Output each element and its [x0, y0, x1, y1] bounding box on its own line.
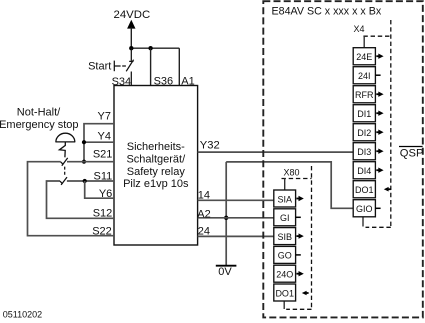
svg-text:24E: 24E — [356, 52, 372, 62]
wire to S36 — [150, 48, 152, 85]
svg-text:14: 14 — [198, 189, 210, 201]
X4 pin RFR — [353, 86, 383, 103]
svg-text:GI: GI — [280, 213, 290, 223]
wire A2 — [198, 217, 274, 219]
junction S36 node — [148, 46, 152, 50]
svg-text:S12: S12 — [93, 208, 113, 220]
svg-text:DI3: DI3 — [357, 147, 371, 157]
emergency stop button head — [55, 133, 75, 157]
wire Y7 — [84, 124, 114, 162]
supply arrow up — [127, 20, 135, 48]
junction S34 node — [129, 46, 133, 50]
connector X4 top lead — [363, 36, 365, 48]
svg-text:Sicherheits-: Sicherheits- — [127, 141, 185, 153]
wire S21 — [67, 161, 114, 163]
svg-text:S11: S11 — [94, 170, 113, 182]
X80 pin DO1 — [274, 284, 309, 301]
wire S11 — [67, 180, 114, 182]
svg-text:SIA: SIA — [277, 194, 292, 204]
svg-text:24O: 24O — [276, 270, 293, 280]
X4 pin DI2 — [353, 124, 383, 141]
connector X4 dashed boundary — [363, 35, 390, 37]
junction S11 — [83, 179, 87, 183]
svg-text:Schaltgerät/: Schaltgerät/ — [126, 153, 186, 165]
svg-text:24: 24 — [198, 225, 210, 237]
svg-text:DO1: DO1 — [355, 185, 374, 195]
wire Y6 jumper — [85, 181, 114, 198]
junction Y4 — [82, 140, 86, 144]
X80 pin SIA — [274, 190, 304, 207]
svg-text:S21: S21 — [93, 148, 113, 160]
e-stop actuator dashed link — [64, 167, 66, 177]
safety relay U1 text — [123, 141, 189, 190]
junction S21 — [82, 160, 86, 164]
connector X80 dashed boundary — [282, 178, 312, 180]
wire S22 loop to e-stop contact 1 — [28, 162, 115, 236]
svg-text:GO: GO — [278, 251, 292, 261]
wire Y32 to DI3 — [198, 151, 354, 153]
connector X4 bottom lead — [362, 217, 364, 227]
svg-text:Emergency stop: Emergency stop — [0, 119, 79, 131]
svg-text:Y6: Y6 — [99, 188, 112, 200]
svg-text:DO1: DO1 — [275, 288, 294, 298]
svg-text:Y32: Y32 — [200, 140, 220, 152]
X80 pin GI — [274, 209, 301, 226]
connector X80 top lead — [284, 178, 286, 190]
X4 pin DI4 — [353, 162, 383, 179]
svg-text:DI2: DI2 — [357, 128, 371, 138]
svg-text:05110202: 05110202 — [3, 310, 42, 320]
ground 0V symbol — [216, 265, 237, 267]
wire Y4 — [84, 141, 114, 143]
svg-text:Start: Start — [88, 61, 111, 73]
X80 pin SIB — [274, 228, 304, 245]
svg-text:24VDC: 24VDC — [114, 9, 151, 21]
svg-text:X4: X4 — [354, 24, 365, 34]
svg-text:GIO: GIO — [356, 204, 373, 214]
wire 14 — [198, 199, 274, 201]
X4 pin DI3 — [353, 143, 383, 160]
svg-text:X80: X80 — [284, 168, 300, 178]
X80 pin 24O — [274, 265, 304, 282]
svg-text:S22: S22 — [92, 225, 112, 237]
svg-text:DI1: DI1 — [357, 109, 371, 119]
e-stop NC contact 1 — [61, 158, 68, 166]
svg-text:Y7: Y7 — [98, 111, 111, 123]
switch S34 start button (NO contact) — [114, 48, 133, 85]
svg-text:SIB: SIB — [277, 232, 292, 242]
X4 pin 24E — [353, 48, 383, 65]
wire S12 loop to e-stop contact 2 — [47, 181, 115, 218]
svg-text:DI4: DI4 — [357, 166, 371, 176]
svg-text:RFR: RFR — [355, 90, 374, 100]
wire GIO net — [226, 162, 353, 208]
connector X80 bottom lead — [283, 301, 285, 309]
safety relay U1 box — [114, 86, 198, 246]
svg-text:QSP: QSP — [400, 147, 424, 159]
e-stop NC contact 2 — [60, 177, 67, 185]
X80 pin GO — [274, 246, 301, 263]
wire to A1 — [178, 48, 180, 85]
svg-text:24I: 24I — [358, 71, 371, 81]
svg-text:A2: A2 — [197, 209, 210, 221]
frequency inverter E84AV dashed enclosure — [263, 1, 423, 317]
wire 24 — [198, 235, 274, 237]
svg-text:E84AV SC x xxx x x Bx: E84AV SC x xxx x x Bx — [272, 5, 382, 17]
svg-text:Pilz e1vp 10s: Pilz e1vp 10s — [123, 178, 189, 190]
X4 pin GIO — [353, 200, 380, 217]
svg-text:0V: 0V — [218, 266, 232, 278]
svg-text:Not-Halt/: Not-Halt/ — [17, 106, 61, 118]
X4 pin DO1 — [353, 181, 391, 198]
X4 pin DI1 — [353, 105, 383, 122]
wire 24V bus horizontal — [131, 47, 179, 49]
X4 pin 24I — [353, 67, 380, 84]
svg-text:Y4: Y4 — [98, 130, 111, 142]
wire 0V net vertical — [225, 162, 227, 265]
junction A2 0V — [224, 216, 228, 220]
svg-text:Safety relay: Safety relay — [127, 166, 186, 178]
net label QSP with overline — [399, 147, 423, 160]
